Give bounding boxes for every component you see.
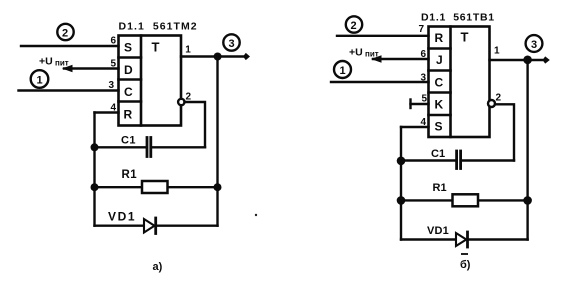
svg-text:R1: R1 bbox=[122, 169, 138, 181]
node junction dot R1 left (right) bbox=[397, 196, 406, 205]
wire left feedback vertical bbox=[93, 113, 95, 226]
svg-text:VD1: VD1 bbox=[427, 225, 449, 237]
node +Upit label bbox=[39, 56, 69, 68]
svg-text:а): а) bbox=[153, 261, 163, 273]
svg-text:C1: C1 bbox=[121, 134, 136, 146]
node 1 input circle (right) bbox=[334, 61, 351, 78]
node junction dot R1 left bbox=[91, 183, 99, 191]
node 2 input circle (right) bbox=[346, 16, 362, 32]
svg-text:3: 3 bbox=[531, 39, 537, 51]
svg-text:+U: +U bbox=[349, 47, 363, 59]
wire right feedback vertical bbox=[216, 57, 218, 226]
wire input C pin 3 bbox=[19, 80, 119, 91]
wire VD1 row bbox=[95, 224, 218, 226]
node label b) bbox=[460, 259, 471, 271]
capacitor C1 (right) bbox=[431, 148, 461, 169]
flip-flop D1.1 (561TV1) body bbox=[429, 27, 490, 138]
wire R1 row (right) bbox=[401, 199, 528, 201]
speck artifact dash bbox=[461, 253, 468, 255]
svg-text:VD1: VD1 bbox=[108, 210, 136, 224]
pin 2 inverted output bbox=[178, 92, 191, 106]
wire C1 row (right) bbox=[401, 159, 514, 161]
node junction dot R1 right (right) bbox=[523, 196, 532, 205]
wire output pin 1 (right) bbox=[490, 46, 550, 64]
svg-text:C: C bbox=[435, 75, 444, 89]
svg-text:R: R bbox=[435, 31, 444, 45]
svg-text:5: 5 bbox=[421, 94, 427, 105]
svg-text:C1: C1 bbox=[431, 148, 445, 160]
svg-text:1: 1 bbox=[340, 65, 346, 77]
wire input R pin 4 bbox=[95, 102, 119, 113]
wire input K pin 5 stub with tick bbox=[411, 94, 429, 108]
svg-text:7: 7 bbox=[418, 24, 424, 35]
wire C1 row bbox=[95, 146, 206, 148]
svg-text:3: 3 bbox=[108, 80, 114, 91]
svg-text:3: 3 bbox=[229, 38, 235, 50]
wire left feedback vertical (right) bbox=[400, 127, 402, 240]
svg-text:R: R bbox=[124, 108, 133, 122]
svg-text:4: 4 bbox=[420, 117, 426, 128]
svg-text:б): б) bbox=[460, 259, 471, 271]
node +Upit label (right) bbox=[349, 47, 379, 59]
svg-text:5: 5 bbox=[110, 58, 116, 69]
svg-text:+U: +U bbox=[39, 56, 53, 68]
node 2 input circle bbox=[57, 24, 73, 40]
svg-text:T: T bbox=[461, 30, 469, 45]
svg-text:D: D bbox=[124, 63, 133, 77]
svg-text:1: 1 bbox=[494, 46, 500, 57]
wire input J pin 6 with left arrowhead bbox=[371, 49, 429, 63]
wire right feedback vertical (right) bbox=[526, 60, 528, 240]
svg-text:пит: пит bbox=[55, 59, 69, 68]
diode VD1 bbox=[108, 210, 156, 234]
svg-text:3: 3 bbox=[420, 73, 426, 84]
wire pin 2 to capacitor (right) bbox=[495, 104, 514, 160]
wire VD1 row (right) bbox=[401, 238, 528, 240]
svg-text:T: T bbox=[152, 40, 160, 55]
wire input S pin 4 bbox=[401, 117, 429, 128]
svg-text:D1.1 561ТВ1: D1.1 561ТВ1 bbox=[421, 12, 495, 24]
node junction dot C1 left bbox=[91, 143, 99, 151]
node junction dot at output (right) bbox=[523, 56, 532, 65]
node junction dot C1 left (right) bbox=[397, 157, 406, 166]
IC D1.1 label 561TM2 bbox=[119, 21, 198, 33]
svg-text:S: S bbox=[124, 41, 132, 55]
svg-text:S: S bbox=[435, 120, 443, 134]
IC D1.1 label 561TV1 bbox=[421, 12, 495, 24]
resistor R1 (right) bbox=[433, 182, 479, 206]
wire input D pin 5 with left arrowhead bbox=[62, 58, 119, 72]
wire pin 2 to capacitor bbox=[185, 102, 206, 147]
capacitor C1 bbox=[121, 134, 151, 156]
svg-text:2: 2 bbox=[351, 20, 357, 32]
svg-text:C: C bbox=[124, 85, 133, 99]
wire input R pin 7 bbox=[337, 24, 429, 36]
node 3 output circle (right) bbox=[526, 35, 543, 52]
wire input C pin 3 (right) bbox=[331, 73, 429, 84]
diode VD1 (right) bbox=[427, 225, 468, 247]
svg-text:1: 1 bbox=[185, 45, 191, 56]
wire output pin 1 bbox=[181, 45, 250, 61]
speck artifact bbox=[255, 214, 257, 216]
pin 2 inverted output (right) bbox=[488, 93, 502, 108]
node label a) bbox=[153, 261, 163, 273]
svg-text:4: 4 bbox=[110, 102, 116, 113]
flip-flop D1.1 (561TM2) body bbox=[119, 36, 182, 126]
svg-text:6: 6 bbox=[420, 49, 426, 60]
svg-text:6: 6 bbox=[110, 36, 116, 47]
svg-text:J: J bbox=[436, 53, 443, 67]
svg-text:R1: R1 bbox=[433, 182, 447, 194]
svg-text:D1.1 561ТМ2: D1.1 561ТМ2 bbox=[119, 21, 198, 33]
node junction dot at output bbox=[214, 53, 222, 61]
node 1 input circle bbox=[31, 70, 49, 88]
node junction dot R1 right bbox=[214, 183, 222, 191]
svg-text:2: 2 bbox=[496, 93, 502, 104]
svg-text:K: K bbox=[435, 98, 444, 112]
svg-text:1: 1 bbox=[37, 75, 43, 87]
wire input S pin 6 bbox=[21, 36, 119, 47]
resistor R1 bbox=[122, 169, 168, 193]
wire R1 row bbox=[95, 186, 218, 188]
node 3 output circle bbox=[223, 34, 239, 50]
svg-text:2: 2 bbox=[62, 28, 68, 40]
